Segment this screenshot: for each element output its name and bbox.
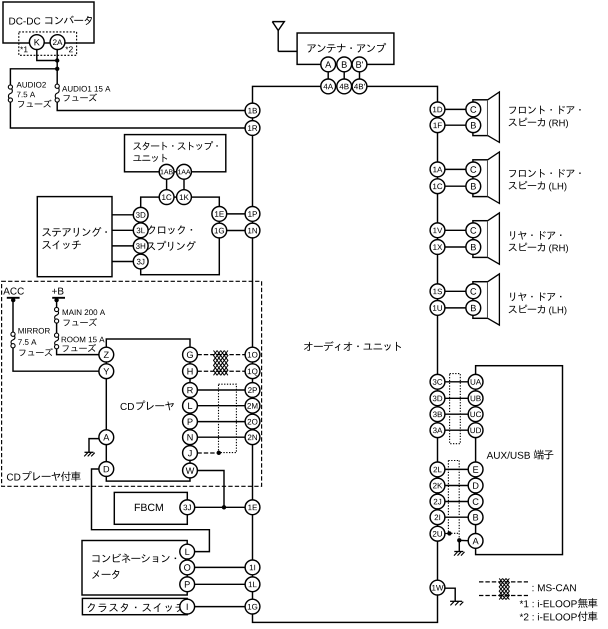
antenna symbol — [272, 22, 284, 52]
connector 2U — [430, 526, 445, 541]
connector 4A — [321, 79, 336, 94]
label ROOM 15 A フューズ — [62, 337, 105, 352]
label *1 i-ELOOP無車 — [520, 598, 598, 608]
connector 2P — [245, 383, 260, 398]
legend twisted pair symbol — [499, 578, 509, 599]
connector 1C — [159, 190, 174, 205]
wire ACC to MIRROR fuse — [12, 299, 14, 332]
connector 3L — [133, 223, 148, 238]
speaker terminal C (1V) — [466, 223, 481, 238]
ground at CD player A — [84, 452, 95, 456]
speaker terminal C (1S) — [466, 284, 481, 299]
connector 1L — [245, 577, 260, 592]
ground at 1W — [450, 601, 463, 605]
connector 2A — [50, 35, 65, 50]
connector 2N — [245, 430, 260, 445]
connector 2M — [245, 398, 260, 413]
connector 3C — [430, 374, 445, 389]
wire 2J to C — [445, 501, 468, 503]
connector 4B' — [352, 79, 367, 94]
connector 1S — [430, 284, 445, 299]
antenna amp box — [297, 33, 394, 64]
speaker terminal B (1C) — [466, 179, 481, 194]
connector 1G audio — [245, 599, 260, 614]
audio unit box — [253, 86, 438, 622]
fuse AUDIO1 15A — [55, 84, 59, 102]
legend dashed wire lower — [479, 595, 528, 597]
wire antenna to amp box — [278, 50, 297, 52]
label クロック・スプリング — [147, 225, 196, 250]
label DC-DC コンバータ — [9, 16, 92, 25]
connector D cd — [99, 462, 114, 477]
connector UC — [468, 407, 483, 422]
clock spring box — [141, 197, 220, 275]
wire K to junction — [37, 49, 57, 60]
connector A cd — [99, 430, 114, 445]
connector 1F — [430, 118, 445, 133]
connector 1W — [430, 580, 445, 595]
label ACC — [3, 288, 24, 295]
wire ROOM fuse to Z — [57, 349, 99, 355]
connector 3H — [133, 239, 148, 254]
connector 3J fbcm — [180, 500, 195, 515]
wire 3H to steering — [112, 245, 133, 247]
connector C aux — [468, 494, 483, 509]
wire P to 1L — [194, 583, 245, 585]
label MIRROR 7.5 A フューズ — [18, 328, 53, 356]
connector 1O — [245, 347, 260, 362]
label CDプレーヤ — [121, 400, 174, 410]
label コンビネーション・メータ — [92, 554, 176, 579]
wire branch to AUDIO2 fuse — [10, 69, 57, 85]
connector 1V — [430, 223, 445, 238]
shield dotted box AUX lower — [448, 461, 459, 541]
wire 3D to UB — [445, 397, 468, 399]
fuse MAIN 200A — [55, 307, 59, 323]
wire A to 4A — [327, 72, 329, 79]
wire 1V to speaker C — [445, 229, 466, 231]
connector A aux — [468, 534, 483, 549]
connector L cd — [183, 398, 198, 413]
speaker terminal B (1X) — [466, 240, 481, 255]
wire 2L to E — [445, 468, 468, 470]
label MAIN 200 A フューズ — [63, 309, 105, 326]
connector B — [337, 57, 352, 72]
label MS-CAN — [533, 584, 576, 591]
connector D aux — [468, 478, 483, 493]
connector 1X — [430, 240, 445, 255]
wire 3D to steering — [112, 214, 133, 216]
dashed box CDプレーヤ付車 — [2, 281, 262, 486]
wire 1E to 1P — [227, 213, 245, 215]
connector 2K — [430, 478, 445, 493]
wire 2I to B — [445, 516, 468, 518]
label speaker スピーカ (RH) — [509, 231, 568, 253]
MS-CAN dashed wire H to 1Q — [197, 370, 245, 372]
label *1 — [20, 46, 27, 52]
connector A — [321, 57, 336, 72]
connector Z — [99, 347, 114, 362]
label *2 i-ELOOP付車 — [520, 611, 598, 621]
connector 1E audio — [245, 500, 260, 515]
wire 3J to 1E — [195, 506, 245, 508]
wire R to 2P — [197, 389, 245, 391]
cluster switch box — [82, 598, 187, 614]
connector 2I — [430, 510, 445, 525]
label クラスタ・スイッチ — [88, 603, 185, 612]
connector 1B — [245, 103, 260, 118]
shield dotted box AUX upper — [450, 374, 461, 444]
wire 3J to steering — [112, 261, 133, 263]
MS-CAN dashed wire G to 1O — [197, 354, 245, 356]
connector 3A — [430, 423, 445, 438]
label *2 — [65, 46, 72, 52]
CD player box — [106, 339, 190, 481]
label AUDIO1 15 A フューズ — [62, 86, 110, 102]
wire 1C to speaker B — [445, 185, 466, 187]
connector 1D — [430, 102, 445, 117]
label CDプレーヤ付車 — [7, 471, 81, 481]
connector 3J — [133, 254, 148, 269]
connector 1R — [245, 121, 260, 136]
connector 1P — [245, 207, 260, 222]
label AUX/USB 端子 — [487, 450, 554, 460]
connector O meter — [180, 560, 195, 575]
ACC terminal — [7, 298, 20, 303]
speaker icon 1A/1C — [473, 152, 500, 203]
wire AUDIO1 fuse to 1B — [57, 102, 245, 110]
combination meter box — [82, 541, 187, 596]
connector UA — [468, 374, 483, 389]
connector 3D audio — [430, 391, 445, 406]
connector Y — [99, 364, 114, 379]
connector 1AB — [159, 164, 174, 179]
speaker terminal B (1U) — [466, 301, 481, 316]
label speaker スピーカ (LH) — [509, 169, 581, 191]
connector 1E clock — [212, 207, 227, 222]
wire MAIN to ROOM fuse — [56, 323, 58, 333]
label +B — [52, 288, 63, 295]
wire 1D to speaker C — [445, 108, 466, 110]
wire B to 4B — [343, 72, 345, 79]
wire 1G to 1N — [227, 230, 245, 232]
legend dashed wire upper — [479, 581, 528, 583]
wire 1X to speaker B — [445, 246, 466, 248]
connector 1Q — [245, 364, 260, 379]
wire B' to 4B' — [359, 72, 361, 79]
connector 1A — [430, 162, 445, 177]
junction dot shield ground — [457, 538, 461, 542]
steering switch box — [37, 197, 112, 277]
connector I cluster — [180, 599, 195, 614]
fuse AUDIO2 7.5A — [8, 85, 12, 102]
connector 1AA — [177, 164, 192, 179]
wire D to L — [92, 469, 210, 552]
wire 3C to UA — [445, 381, 468, 383]
junction dot J shield — [217, 451, 221, 455]
connector N — [183, 430, 198, 445]
label FBCM — [135, 504, 163, 511]
wire N to 2N — [197, 436, 245, 438]
dashed wire J to shield — [197, 452, 218, 454]
wire 1F to speaker B — [445, 124, 466, 126]
dashed option box around K/2A — [19, 32, 77, 55]
wire L to 2M — [197, 405, 245, 407]
speaker terminal B (1F) — [466, 118, 481, 133]
connector H — [183, 364, 198, 379]
connector P cd — [183, 414, 198, 429]
wire P to 2O — [197, 421, 245, 423]
connector 2J — [430, 494, 445, 509]
ground at AUX — [454, 552, 465, 556]
connector UD — [468, 423, 483, 438]
connector 1U — [430, 301, 445, 316]
wire 1S to speaker C — [445, 290, 466, 292]
shield dotted box CD — [219, 384, 237, 452]
wire A to ground — [89, 439, 100, 453]
wire 1W to ground — [445, 588, 455, 601]
label speaker スピーカ (RH) — [509, 106, 581, 129]
connector UB — [468, 391, 483, 406]
connector W — [183, 463, 198, 478]
wire +B to MAIN fuse — [56, 299, 58, 308]
wire 1AA to 1K — [183, 179, 185, 190]
wire junction to ground — [458, 540, 460, 551]
connector 1N — [245, 223, 260, 238]
speaker terminal C (1D) — [466, 102, 481, 117]
speaker icon 1S/1U — [473, 274, 500, 325]
connector 3D — [133, 207, 148, 222]
label AUDIO2 7.5 A フューズ — [17, 82, 52, 108]
connector 2O — [245, 414, 260, 429]
wire O to 1I — [194, 566, 245, 568]
connector 1K — [177, 190, 192, 205]
connector K — [29, 35, 44, 50]
+B terminal — [52, 298, 65, 303]
connector P meter — [180, 577, 195, 592]
wire 3A to UD — [445, 429, 468, 431]
wire A aux to ground junction — [459, 539, 468, 541]
connector B aux — [468, 510, 483, 525]
connector 1G clock — [212, 223, 227, 238]
fuse ROOM 15A — [55, 333, 59, 349]
connector G — [183, 347, 198, 362]
dashed wire 2U to shield — [445, 533, 450, 535]
wire W to FBCM node — [197, 471, 224, 508]
start-stop unit box — [125, 135, 226, 172]
label オーディオ・ユニット — [304, 341, 401, 351]
DC-DC converter box — [3, 2, 94, 43]
twisted pair symbol — [214, 351, 228, 376]
wire 3B to UC — [445, 413, 468, 415]
connector 2L — [430, 462, 445, 477]
wire 2K to D — [445, 485, 468, 487]
speaker icon 1V/1X — [473, 213, 500, 264]
connector 1C — [430, 179, 445, 194]
label アンテナ・アンプ — [307, 43, 386, 53]
connector R — [183, 383, 198, 398]
connector B' — [352, 57, 367, 72]
wire AUDIO2 fuse to 1R — [10, 102, 245, 128]
junction dot W/3J — [222, 505, 226, 509]
wire 1AB to 1C — [166, 179, 168, 190]
connector L meter — [180, 544, 195, 559]
connector 3B — [430, 407, 445, 422]
fuse MIRROR 7.5A — [11, 332, 15, 348]
wire 3L to steering — [112, 229, 133, 231]
junction dot 2U shield — [447, 531, 451, 535]
FBCM box — [114, 492, 187, 524]
connector 4B — [337, 79, 352, 94]
AUX/USB box — [476, 366, 563, 555]
wire I to 1G — [194, 606, 245, 608]
junction dot branch — [55, 67, 59, 71]
junction dot K/2A — [55, 58, 59, 62]
connector E aux — [468, 462, 483, 477]
label speaker スピーカ (LH) — [509, 292, 567, 315]
wire 2A down to fuse AUDIO1 — [56, 49, 58, 84]
label スタート・ストップ・ユニット — [133, 141, 217, 162]
wire MIRROR fuse to Y — [13, 348, 99, 371]
connector J — [183, 446, 198, 461]
speaker terminal C (1A) — [466, 162, 481, 177]
speaker icon 1D/1F — [473, 92, 500, 142]
wire 1A to speaker C — [445, 168, 466, 170]
wire 1U to speaker B — [445, 307, 466, 309]
connector 1I — [245, 560, 260, 575]
label ステアリング・スイッチ — [42, 227, 107, 249]
